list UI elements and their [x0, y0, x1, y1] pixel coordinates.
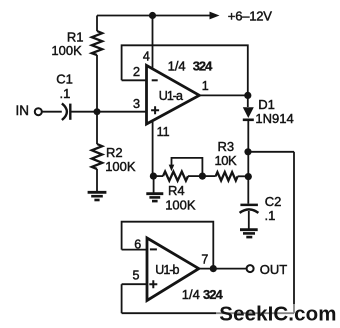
wire: right rail	[293, 152, 295, 304]
wire: pin 5	[122, 283, 147, 285]
wire: cathode of D1	[247, 121, 249, 152]
wire: rail corner to R1	[96, 16, 98, 32]
node: pin11/R4 junction	[150, 173, 157, 180]
svg-text:1N914: 1N914	[255, 111, 293, 126]
node A: input junction	[94, 108, 101, 115]
wire: node A to pin 3	[97, 111, 147, 113]
svg-text:100K: 100K	[105, 159, 136, 174]
svg-text:U1-b: U1-b	[155, 263, 179, 277]
wire: pin 6	[122, 249, 147, 251]
wire: R3 to junction	[238, 175, 249, 177]
svg-text:D1: D1	[258, 97, 275, 112]
resistor R2	[92, 144, 102, 169]
wire: detector node down to C2	[247, 152, 249, 204]
svg-text:R3: R3	[218, 139, 235, 154]
svg-text:7: 7	[201, 253, 208, 267]
wire: detector node to right rail	[248, 151, 294, 153]
svg-text:1: 1	[202, 79, 209, 93]
ground (mid)	[146, 192, 163, 195]
svg-text:1/4: 1/4	[182, 287, 200, 302]
ground (R2)	[88, 191, 107, 194]
svg-text:.1: .1	[60, 86, 71, 101]
svg-text:1/4: 1/4	[168, 58, 186, 73]
capacitor C1 curved plate	[62, 103, 67, 120]
capacitor C1 straight plate	[69, 104, 71, 120]
potentiometer R4 wiper arrowhead	[169, 165, 175, 172]
wire: pin 7 output	[199, 268, 247, 270]
output terminal	[247, 265, 254, 272]
svg-text:6: 6	[134, 238, 141, 252]
wire: node A to R2	[96, 112, 98, 144]
wire: U1-a feedback loop	[122, 45, 248, 95]
power arrow	[210, 12, 220, 20]
svg-text:U1-a: U1-a	[159, 89, 183, 103]
wire: pin 5 riser	[121, 284, 123, 313]
wire: pin 4 supply	[152, 16, 154, 69]
potentiometer R4 wiper arm	[172, 158, 203, 176]
wire: junction to R4	[153, 175, 163, 177]
input terminal	[35, 108, 42, 115]
node: detector junction	[244, 148, 251, 155]
svg-text:SeekIC.com: SeekIC.com	[219, 302, 336, 325]
op-amp U1-a	[147, 65, 200, 124]
resistor R1	[92, 31, 102, 55]
svg-text:C2: C2	[265, 194, 282, 209]
svg-text:OUT: OUT	[260, 262, 288, 277]
svg-text:5: 5	[133, 268, 140, 282]
svg-text:2: 2	[133, 64, 140, 79]
svg-text:324: 324	[193, 58, 213, 73]
potentiometer R4 element	[163, 172, 188, 181]
label plus (U1-b)	[149, 280, 157, 288]
label minus (U1-b)	[150, 248, 157, 250]
op-amp U1-b	[147, 238, 199, 301]
wire: R1 to input node	[96, 55, 98, 112]
svg-text:324: 324	[203, 287, 223, 302]
svg-text:IN: IN	[16, 103, 30, 118]
wire: anode of D1	[247, 95, 249, 107]
wire: +V top rail	[97, 15, 212, 17]
node: R3/C2 junction	[245, 173, 252, 180]
label minus (U1-a)	[152, 79, 158, 81]
svg-text:R2: R2	[106, 145, 123, 160]
svg-text:11: 11	[157, 125, 170, 139]
capacitor C2 curved plate	[240, 209, 259, 213]
wire: pin 11	[152, 121, 154, 176]
node: U1-a output junction	[244, 92, 251, 99]
wire: R4 wiper node to R3	[202, 175, 215, 177]
svg-text:C1: C1	[56, 72, 73, 87]
wire: pin 2	[122, 79, 147, 81]
svg-text:3: 3	[133, 96, 140, 111]
wire: R4 right terminal	[188, 175, 202, 177]
svg-text:4: 4	[143, 49, 150, 63]
wire: terminal to C1	[42, 111, 62, 113]
wire: bottom run	[122, 312, 216, 314]
capacitor C2 top plate	[240, 204, 258, 207]
diode D1 body	[243, 107, 254, 118]
wire: C2 to ground	[248, 211, 250, 229]
wire: pin 1 output	[199, 94, 248, 96]
resistor R3	[216, 172, 238, 181]
wire: R2 to ground	[96, 169, 98, 191]
svg-text:.1: .1	[265, 208, 276, 223]
wire: junction to mid ground	[153, 176, 155, 193]
node: R4 wiper junction	[199, 173, 206, 180]
label plus (U1-a)	[151, 106, 159, 114]
svg-text:+6–12V: +6–12V	[228, 8, 273, 23]
svg-text:10K: 10K	[215, 153, 237, 168]
diode D1 cathode bar	[243, 119, 254, 122]
svg-text:100K: 100K	[51, 43, 82, 58]
node: U1-b output junction	[210, 265, 217, 272]
ground (C2)	[240, 228, 258, 231]
wire: U1-b feedback loop	[122, 222, 214, 269]
wire: C1 to node A	[70, 111, 97, 113]
svg-text:R4: R4	[168, 183, 185, 198]
node: supply junction	[149, 12, 156, 19]
svg-text:100K: 100K	[165, 198, 196, 213]
